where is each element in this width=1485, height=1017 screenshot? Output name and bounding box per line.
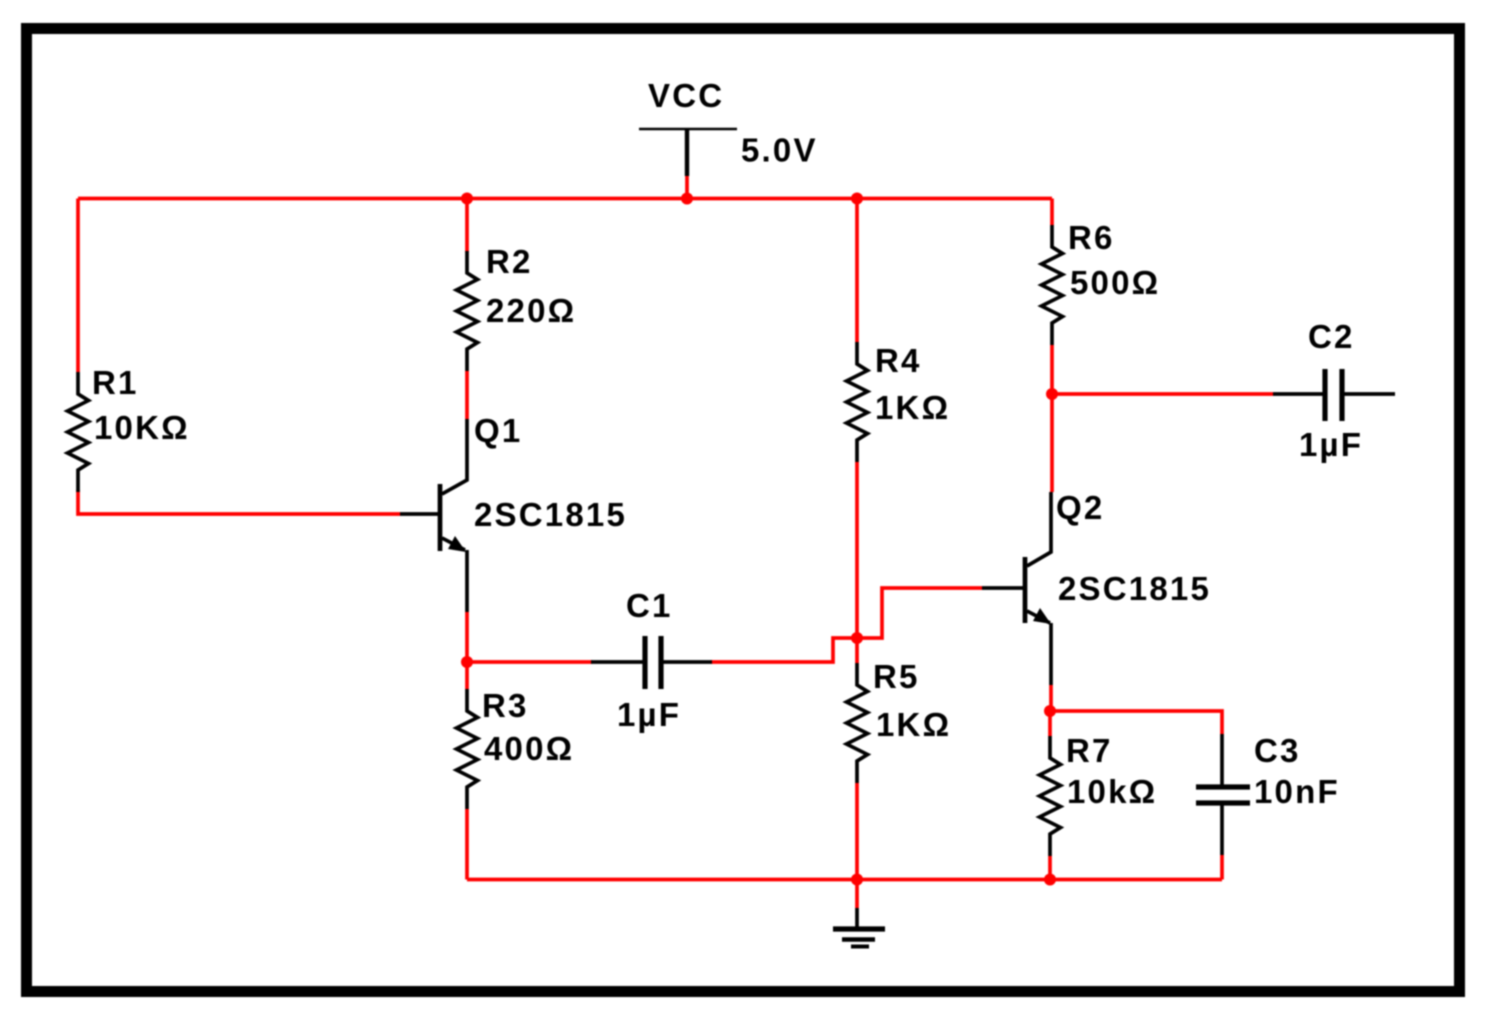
svg-text:R2: R2 [486, 243, 533, 280]
svg-text:Q1: Q1 [474, 412, 522, 449]
svg-text:R4: R4 [875, 342, 922, 379]
svg-text:R3: R3 [482, 687, 529, 724]
svg-text:VCC: VCC [648, 77, 724, 114]
svg-text:R6: R6 [1068, 219, 1115, 256]
svg-text:C1: C1 [626, 587, 673, 624]
svg-text:220Ω: 220Ω [486, 292, 576, 329]
svg-text:C3: C3 [1254, 732, 1301, 769]
svg-text:R1: R1 [92, 364, 139, 401]
svg-text:R7: R7 [1066, 732, 1113, 769]
svg-text:Q2: Q2 [1056, 489, 1104, 526]
svg-text:2SC1815: 2SC1815 [474, 496, 627, 533]
svg-text:R5: R5 [873, 658, 920, 695]
svg-text:2SC1815: 2SC1815 [1058, 570, 1211, 607]
svg-text:1µF: 1µF [1299, 426, 1363, 463]
svg-text:5.0V: 5.0V [741, 132, 818, 169]
svg-text:10kΩ: 10kΩ [1067, 773, 1157, 810]
svg-text:1KΩ: 1KΩ [876, 706, 951, 743]
svg-text:1µF: 1µF [617, 696, 681, 733]
svg-text:400Ω: 400Ω [484, 730, 574, 767]
svg-text:10KΩ: 10KΩ [94, 409, 190, 446]
svg-text:1KΩ: 1KΩ [875, 389, 950, 426]
svg-text:10nF: 10nF [1254, 773, 1340, 810]
svg-text:500Ω: 500Ω [1070, 264, 1160, 301]
svg-text:C2: C2 [1308, 318, 1355, 355]
